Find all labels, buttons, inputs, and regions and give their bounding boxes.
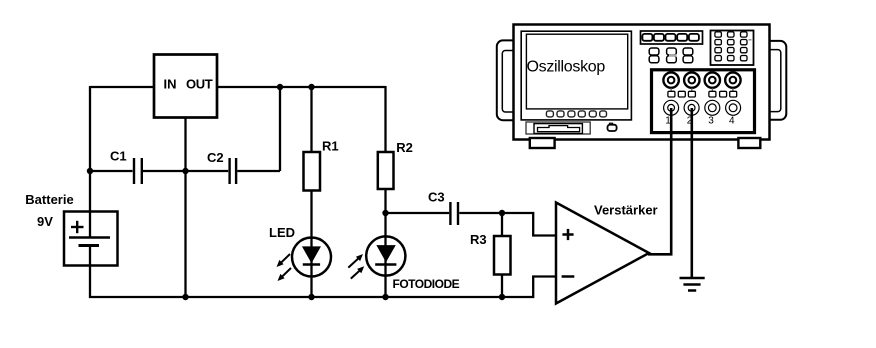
svg-text:C1: C1	[110, 149, 127, 164]
svg-text:C2: C2	[207, 150, 224, 165]
svg-text:LED: LED	[269, 225, 295, 240]
svg-text:IN: IN	[164, 76, 177, 91]
svg-text:4: 4	[729, 116, 735, 127]
svg-text:R3: R3	[470, 232, 487, 247]
svg-text:FOTODIODE: FOTODIODE	[393, 277, 460, 291]
svg-text:3: 3	[708, 116, 714, 127]
svg-text:R2: R2	[396, 140, 413, 155]
svg-text:R1: R1	[322, 139, 339, 154]
svg-text:Verstärker: Verstärker	[594, 203, 658, 218]
svg-text:OUT: OUT	[186, 76, 213, 91]
svg-text:9V: 9V	[37, 214, 53, 229]
svg-text:C3: C3	[428, 190, 445, 205]
svg-text:Oszilloskop: Oszilloskop	[527, 59, 606, 76]
svg-text:Batterie: Batterie	[25, 192, 73, 207]
